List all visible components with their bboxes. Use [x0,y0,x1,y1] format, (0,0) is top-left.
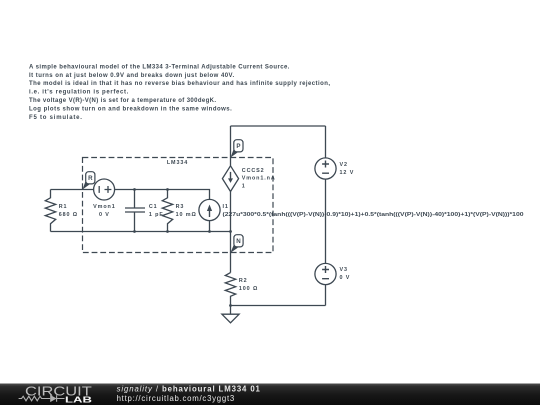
svg-text:R1: R1 [59,204,68,210]
LM334 block label [167,160,188,166]
wire Vmon1 to I1 stub [115,190,210,200]
svg-text:1: 1 [242,183,246,189]
svg-text:signality / behavioural LM334: signality / behavioural LM334 01 [117,384,261,393]
svg-text:R2: R2 [239,278,248,284]
svg-text:(227u*300*0.5*(tanh(((V(P)-V(N: (227u*300*0.5*(tanh(((V(P)-V(N))-0.9)*10… [223,212,524,218]
junction R3 top [166,188,169,191]
voltage source Vmon1 value label [93,204,115,218]
svg-text:P: P [236,143,240,150]
resistor R3 value label [176,204,197,218]
wire bottom internal rail [51,231,231,233]
svg-text:100 Ω: 100 Ω [239,286,258,292]
resistor R1 [45,190,55,232]
junction C1 bottom [133,230,136,233]
voltage source V2 [315,158,336,179]
current source I1 [199,199,220,231]
LM334 block outline (dashed) [83,158,274,253]
svg-text:LAB: LAB [65,395,92,404]
CircuitLab logo LAB [65,395,92,404]
svg-text:It turns on at just below 0.9V: It turns on at just below 0.9V and break… [29,73,235,79]
svg-text:N: N [236,238,241,245]
svg-text:LM334: LM334 [167,160,188,166]
svg-text:A simple behavioural model of: A simple behavioural model of the LM334 … [29,64,290,70]
CCCS CCCS2 [222,166,238,192]
resistor R2 [225,273,235,306]
svg-text:The model is ideal in that it: The model is ideal in that it has no rev… [29,81,330,87]
node N [231,235,244,253]
ground [222,306,239,323]
svg-text:0 V: 0 V [340,275,351,281]
footer bar [0,384,540,405]
capacitor C1 value label [149,204,164,218]
wire R1 top to Vmon1 [51,189,94,191]
svg-text:0 V: 0 V [99,212,110,218]
voltage source V3 value label [340,267,351,281]
voltage source Vmon1 [94,179,115,200]
svg-text:R3: R3 [176,204,185,210]
resistor R1 value label [59,204,78,218]
svg-text:F5 to simulate.: F5 to simulate. [29,115,83,121]
junction ground node [229,304,232,307]
junction I1 bottom [208,230,211,233]
resistor R3 [162,190,172,232]
CircuitLab logo CIRCUIT [25,385,92,399]
junction C1 top [133,188,136,191]
footer url text [117,394,235,403]
junction R3 bottom [166,230,169,233]
footer title text [117,384,261,393]
svg-text:12 V: 12 V [340,170,355,176]
CircuitLab logo resistor-diode symbol [19,395,65,402]
svg-text:10 mΩ: 10 mΩ [176,212,197,218]
svg-text:C1: C1 [149,204,158,210]
node P [231,140,243,158]
svg-text:Vmon1.nA: Vmon1.nA [242,176,276,182]
voltage source V3 [315,263,336,284]
svg-text:680 Ω: 680 Ω [59,212,78,218]
current source I1 label and expression [223,204,524,218]
svg-text:1 pF: 1 pF [149,212,164,218]
svg-text:R: R [88,175,93,182]
node R [83,172,95,190]
svg-text:Log plots show turn on and bre: Log plots show turn on and breakdown in … [29,106,232,112]
wire V2-V3 branch vertical [325,126,327,306]
voltage source V2 value label [340,162,355,176]
wire CCCS2 branch vertical [230,126,232,273]
svg-text:V3: V3 [340,267,348,273]
wire bottom rail [231,305,326,307]
svg-text:CCCS2: CCCS2 [242,168,265,174]
resistor R2 value label [239,278,258,292]
junction CCCS2 bottom rail [229,230,232,233]
CCCS CCCS2 value label [242,168,276,190]
svg-text:V2: V2 [340,162,348,168]
svg-text:The voltage V(R)-V(N) is set f: The voltage V(R)-V(N) is set for a tempe… [29,98,216,104]
svg-text:i.e. it's regulation is perfec: i.e. it's regulation is perfect. [29,90,129,96]
wire top rail P to V2 [231,125,326,127]
svg-text:Vmon1: Vmon1 [93,204,115,210]
svg-text:I1: I1 [223,204,229,210]
svg-text:http://circuitlab.com/c3yggt3: http://circuitlab.com/c3yggt3 [117,394,235,403]
capacitor C1 [125,190,145,232]
